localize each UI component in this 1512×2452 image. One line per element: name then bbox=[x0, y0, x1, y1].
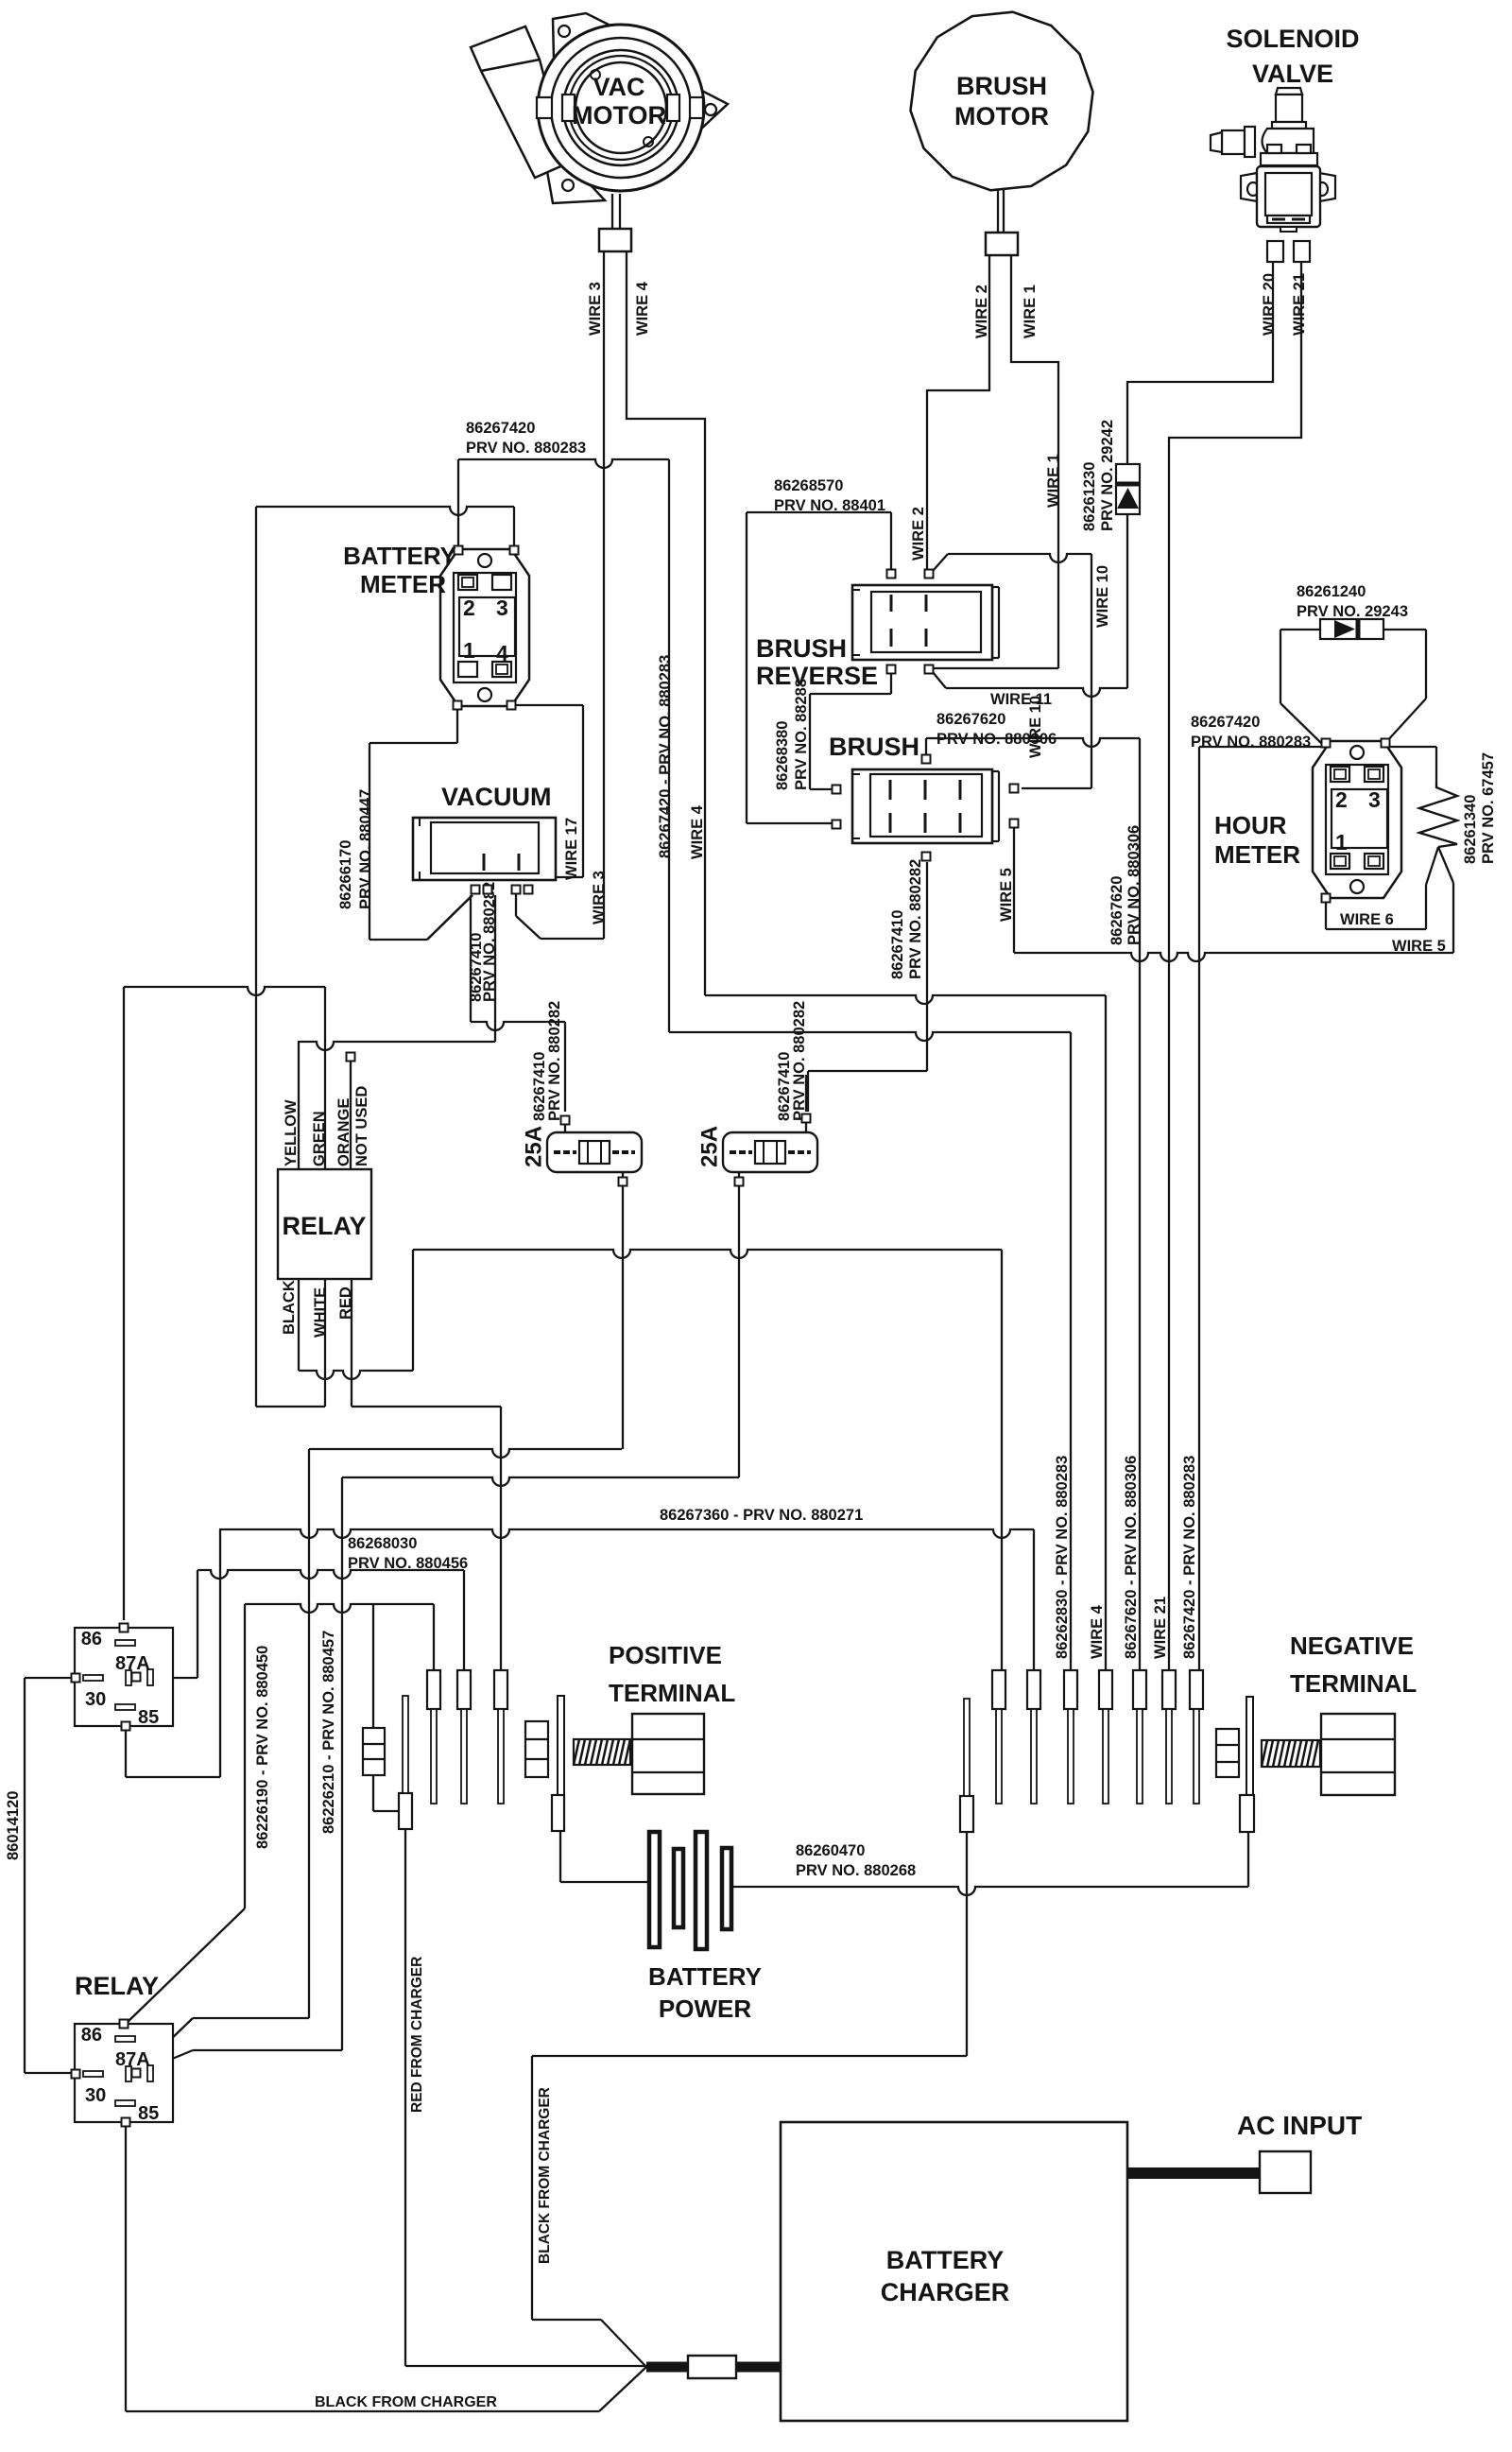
svg-text:SOLENOID: SOLENOID bbox=[1226, 25, 1359, 53]
svg-text:METER: METER bbox=[360, 570, 446, 598]
wire relay1 87A to bus y1661 bbox=[173, 1677, 198, 1679]
splice (charger leads) bbox=[688, 2356, 736, 2378]
thick wire charger DC leads bbox=[646, 2362, 688, 2373]
svg-text:85: 85 bbox=[138, 2103, 159, 2124]
svg-text:GREEN: GREEN bbox=[311, 1111, 328, 1166]
svg-text:85: 85 bbox=[138, 1707, 159, 1728]
svg-text:PRV NO. 29243: PRV NO. 29243 bbox=[1297, 603, 1408, 620]
hour meter pin stub top-left bbox=[1322, 739, 1331, 748]
wire battery meter pin3 loop to WHITE bbox=[256, 507, 514, 515]
svg-text:87A: 87A bbox=[115, 1653, 150, 1674]
connector bar b2 bbox=[1027, 1670, 1040, 1709]
svg-text:86267420: 86267420 bbox=[466, 420, 535, 437]
wire splice to red charger bar bbox=[372, 1775, 374, 1811]
svg-text:PRV NO. 88288: PRV NO. 88288 bbox=[793, 679, 810, 790]
resistor R1 86261340 PRV NO. 67457 bbox=[1419, 783, 1457, 847]
svg-text:WIRE 5: WIRE 5 bbox=[1392, 938, 1446, 955]
wire hour meter top-left pin to 86267420 riser bbox=[1199, 746, 1321, 748]
svg-text:86267620 - PRV NO. 880306: 86267620 - PRV NO. 880306 bbox=[1123, 1456, 1140, 1659]
svg-text:25A: 25A bbox=[697, 1126, 723, 1167]
brush switch terminal right-upper bbox=[1010, 785, 1019, 793]
wire hour meter top-right pin to resistor bbox=[1387, 746, 1436, 748]
svg-text:86267620: 86267620 bbox=[1108, 876, 1125, 945]
svg-text:NEGATIVE: NEGATIVE bbox=[1290, 1632, 1414, 1660]
terminal block POSITIVE TERMINAL bbox=[632, 1714, 704, 1794]
svg-text:86267620: 86267620 bbox=[936, 711, 1005, 728]
wire WIRE 10 from brush reverse terminal to brush switch bbox=[933, 554, 948, 571]
wire brush switch right top terminal lead bbox=[1021, 787, 1022, 789]
svg-text:BLACK: BLACK bbox=[281, 1280, 298, 1335]
vacuum switch terminal 3 bbox=[512, 886, 521, 894]
wire battery meter pin1 to vacuum switch (86266170 - PRV NO. 880447) bbox=[456, 709, 458, 743]
svg-text:WIRE 10: WIRE 10 bbox=[1094, 565, 1111, 628]
solenoid valve terminal 21 bbox=[1294, 241, 1310, 262]
brush motor connector bbox=[986, 233, 1018, 255]
brush switch BRUSH bbox=[852, 769, 992, 843]
vacuum switch VACUUM bbox=[413, 818, 556, 880]
connector bar RED FROM CHARGER mate bbox=[399, 1793, 412, 1829]
circuit breaker CB1 bottom terminal bbox=[619, 1178, 627, 1186]
threaded stud (negative) bbox=[1262, 1740, 1320, 1767]
svg-text:25A: 25A bbox=[522, 1126, 547, 1167]
wire BRUSH MOTOR pigtail bbox=[997, 189, 999, 233]
wire battery power to negative plate (86260470 - PRV NO. 880268) bbox=[731, 1887, 1248, 1895]
brush reverse terminal bottom-left bbox=[887, 665, 896, 674]
connector bar b4 (WIRE 4) bbox=[1099, 1670, 1112, 1709]
wire bus y1563 breaker2 to relay2 87A bbox=[342, 1477, 739, 1486]
circuit breaker CB1 25A bbox=[547, 1132, 642, 1172]
svg-text:WIRE 4: WIRE 4 bbox=[1089, 1604, 1106, 1659]
connector bar b3 bbox=[1064, 1670, 1077, 1709]
wire BLACK from relay bbox=[298, 1279, 300, 1371]
battery symbol BATTERY POWER bbox=[649, 1832, 660, 1947]
wire 86268570 PRV NO. 88401 loop (brush reverse to brush) bbox=[890, 512, 892, 569]
svg-text:PRV NO. 29242: PRV NO. 29242 bbox=[1099, 420, 1116, 531]
wire WIRE 1 from brush motor bbox=[1011, 255, 1058, 668]
svg-text:3: 3 bbox=[1368, 787, 1381, 812]
brush switch terminal bottom bbox=[922, 853, 931, 861]
svg-text:PRV NO. 88401: PRV NO. 88401 bbox=[774, 497, 885, 514]
brush switch terminal left-upper bbox=[833, 786, 841, 794]
circuit breaker CB2 top terminal bbox=[802, 1114, 811, 1123]
svg-text:86: 86 bbox=[81, 1629, 102, 1649]
wire breaker2 top lead bbox=[805, 1075, 807, 1112]
svg-text:WIRE 21: WIRE 21 bbox=[1291, 273, 1308, 336]
svg-text:86267360 - PRV NO. 880271: 86267360 - PRV NO. 880271 bbox=[660, 1507, 863, 1524]
svg-text:86262830 - PRV NO. 880283: 86262830 - PRV NO. 880283 bbox=[1054, 1456, 1071, 1659]
wire 86268380 PRV NO. 88288 (brush reverse to brush) bbox=[890, 672, 892, 694]
hour meter connector HOUR METER bbox=[1313, 741, 1401, 898]
svg-text:86261240: 86261240 bbox=[1297, 583, 1366, 600]
vac motor connector bbox=[599, 229, 631, 251]
brush reverse terminal top-right bbox=[925, 570, 934, 578]
svg-text:PRV NO. 880283: PRV NO. 880283 bbox=[466, 440, 586, 457]
splice 86226190/charger bbox=[363, 1728, 385, 1775]
relay box RELAY bbox=[278, 1169, 371, 1279]
threaded stud (positive) bbox=[574, 1739, 630, 1765]
svg-text:30: 30 bbox=[85, 2085, 106, 2106]
svg-text:TERMINAL: TERMINAL bbox=[1290, 1669, 1417, 1698]
svg-text:86226210 - PRV NO. 880457: 86226210 - PRV NO. 880457 bbox=[320, 1631, 337, 1834]
wire CB1 stub links bbox=[564, 1124, 566, 1132]
svg-text:WIRE 4: WIRE 4 bbox=[689, 804, 706, 859]
svg-text:NOT USED: NOT USED bbox=[353, 1086, 370, 1166]
svg-text:HOUR: HOUR bbox=[1214, 811, 1287, 839]
stub NOT USED terminal bbox=[347, 1053, 355, 1062]
wire bus y1697 (86226190) to relay2 86 bbox=[245, 1604, 434, 1613]
wire WHITE from relay bbox=[324, 1279, 326, 1407]
svg-text:86267420: 86267420 bbox=[1191, 714, 1260, 731]
svg-text:MOTOR: MOTOR bbox=[572, 101, 666, 130]
battery charger box BATTERY CHARGER bbox=[781, 2122, 1127, 2421]
brush switch terminal left-lower bbox=[833, 820, 841, 829]
wire YELLOW into relay bbox=[298, 1042, 300, 1169]
svg-text:WIRE 21: WIRE 21 bbox=[1152, 1597, 1169, 1659]
svg-text:VACUUM: VACUUM bbox=[441, 783, 552, 811]
svg-text:30: 30 bbox=[85, 1689, 106, 1710]
svg-text:87A: 87A bbox=[115, 2049, 150, 2070]
svg-text:BLACK FROM CHARGER: BLACK FROM CHARGER bbox=[315, 2394, 497, 2410]
wire black-from-charger vertical bbox=[531, 2056, 533, 2320]
svg-text:86267420 - PRV NO. 880283: 86267420 - PRV NO. 880283 bbox=[1181, 1456, 1198, 1659]
svg-text:MOTOR: MOTOR bbox=[954, 102, 1049, 130]
vacuum switch terminal 2 bbox=[484, 886, 492, 894]
svg-text:ORANGE: ORANGE bbox=[335, 1098, 352, 1166]
bus plate (negative) bbox=[1246, 1697, 1253, 1795]
circuit breaker CB1 top terminal bbox=[561, 1116, 570, 1125]
svg-text:86261340: 86261340 bbox=[1462, 795, 1479, 864]
wire WIRE 4 from vac motor connector bbox=[627, 250, 705, 995]
svg-text:PRV NO. 880447: PRV NO. 880447 bbox=[357, 789, 374, 909]
wire diode1 to WIRE 11 bbox=[1126, 514, 1128, 688]
svg-text:86261230: 86261230 bbox=[1081, 462, 1098, 531]
svg-text:WIRE 5: WIRE 5 bbox=[998, 868, 1015, 922]
wire breaker1 bottom lead bbox=[622, 1185, 624, 1449]
wire WIRE 2 from brush motor to brush reverse bbox=[927, 255, 989, 569]
svg-text:4: 4 bbox=[496, 641, 508, 665]
svg-text:REVERSE: REVERSE bbox=[756, 662, 878, 690]
brush reverse terminal top-left bbox=[887, 570, 896, 578]
svg-text:WHITE: WHITE bbox=[312, 1287, 329, 1338]
wire splice drop from bus y1697 bbox=[372, 1604, 374, 1728]
svg-text:METER: METER bbox=[1214, 840, 1300, 869]
svg-text:2: 2 bbox=[1335, 787, 1348, 812]
wire charger to negative mate connector bbox=[532, 2055, 967, 2057]
wire battery bus y1322 bbox=[413, 1250, 1002, 1258]
wire WIRE 5 from brush switch to resistor bbox=[1013, 827, 1015, 953]
svg-text:RELAY: RELAY bbox=[282, 1212, 366, 1240]
svg-text:PRV NO. 880283: PRV NO. 880283 bbox=[1191, 734, 1311, 751]
wire WIRE 3 from vac motor connector down to vacuum switch (86267420) bbox=[603, 250, 605, 939]
circuit breaker CB2 bottom terminal bbox=[735, 1178, 744, 1186]
svg-text:AC INPUT: AC INPUT bbox=[1237, 2111, 1362, 2140]
relay K1 (86/87A/30/85) bbox=[72, 1624, 174, 1731]
wire breaker2 bottom lead bbox=[738, 1185, 740, 1477]
wire bus 86268030 / 86267360 bbox=[219, 1529, 1034, 1538]
svg-text:WIRE 3: WIRE 3 bbox=[587, 282, 604, 336]
wire bus y1533 breaker1 to relay2 87A bbox=[309, 1449, 622, 1458]
brush motor BRUSH MOTOR bbox=[911, 12, 1093, 191]
wire relay2 85 black-from-charger run bbox=[125, 2122, 127, 2411]
svg-text:PRV NO. 880268: PRV NO. 880268 bbox=[796, 1862, 916, 1879]
svg-text:WIRE 3: WIRE 3 bbox=[591, 871, 608, 924]
wire WIRE 4 lower run to negative bar bbox=[705, 995, 1106, 1004]
hour meter pin stub bottom-left bbox=[1322, 894, 1331, 903]
svg-text:1: 1 bbox=[1335, 830, 1348, 855]
hour meter pin stub top-right bbox=[1382, 739, 1390, 748]
svg-text:WIRE 1: WIRE 1 bbox=[1045, 454, 1062, 508]
connector bar (86226190 circuit) bbox=[427, 1670, 440, 1709]
svg-text:PRV NO. 880306: PRV NO. 880306 bbox=[1125, 825, 1143, 945]
wire ORANGE stub bbox=[350, 1061, 352, 1169]
svg-text:PRV NO. 67457: PRV NO. 67457 bbox=[1480, 752, 1497, 864]
wire WIRE 11 brush reverse to diode1 bbox=[933, 672, 946, 688]
wire battery meter pin2 riser (86267420 - PRV NO. 880283) bbox=[457, 459, 459, 546]
svg-text:WIRE 1: WIRE 1 bbox=[1022, 285, 1039, 338]
svg-text:BRUSH: BRUSH bbox=[756, 634, 847, 663]
svg-text:1: 1 bbox=[463, 638, 475, 663]
bus plate (positive) bbox=[558, 1696, 564, 1795]
svg-text:86267410: 86267410 bbox=[889, 910, 906, 979]
relay K2 (86/87A/30/85) bbox=[72, 2020, 174, 2127]
battery meter pin stub top-left bbox=[455, 546, 463, 555]
svg-text:BATTERY: BATTERY bbox=[886, 2246, 1005, 2274]
svg-text:BRUSH: BRUSH bbox=[829, 733, 919, 761]
wire diode2 loop right bbox=[1383, 629, 1426, 630]
battery meter pin stub top-right bbox=[510, 546, 519, 555]
nut (negative) bbox=[1216, 1729, 1239, 1777]
wire battery meter pin4 WIRE 17 to vacuum switch bbox=[516, 704, 583, 706]
svg-text:WIRE 17: WIRE 17 bbox=[563, 818, 580, 880]
brush switch terminal top bbox=[922, 755, 931, 764]
svg-text:POSITIVE: POSITIVE bbox=[609, 1641, 722, 1669]
wire vacuum to relay YELLOW feed bbox=[494, 895, 496, 1042]
battery meter pin stub bottom-right bbox=[507, 701, 516, 710]
wire 86014120 relay1-30 to relay2-30 bbox=[25, 1677, 75, 1679]
svg-text:PRV NO. 880282: PRV NO. 880282 bbox=[907, 859, 924, 979]
wire vacuum terminal A diagonal bbox=[427, 895, 472, 940]
battery meter pin stub bottom-left bbox=[454, 701, 462, 710]
wire GREEN from relay to lower relay bbox=[324, 987, 326, 1169]
connector bar (relay1 87A circuit) bbox=[457, 1670, 471, 1709]
wire CB2 stub links bbox=[805, 1122, 807, 1132]
wire 86267410 PRV NO. 880282 vacuum to breaker1 bbox=[470, 895, 472, 1022]
svg-text:86260470: 86260470 bbox=[796, 1842, 865, 1859]
brush reverse terminal bottom-right bbox=[925, 665, 934, 674]
wire 86267410 PRV NO. 880282 brush bottom to breaker2 bbox=[926, 862, 928, 1071]
svg-text:86266170: 86266170 bbox=[337, 840, 354, 909]
svg-text:86268570: 86268570 bbox=[774, 477, 843, 494]
svg-text:YELLOW: YELLOW bbox=[283, 1099, 300, 1166]
wire WIRE 1 into brush reverse lower terminal bbox=[934, 667, 1058, 669]
svg-text:WIRE 11: WIRE 11 bbox=[990, 691, 1052, 708]
terminal block NEGATIVE TERMINAL bbox=[1321, 1714, 1395, 1795]
svg-text:WIRE 4: WIRE 4 bbox=[634, 281, 651, 336]
nut (positive) bbox=[525, 1721, 548, 1777]
thick wire AC input bbox=[1127, 2167, 1260, 2179]
svg-text:CHARGER: CHARGER bbox=[881, 2278, 1010, 2306]
svg-text:BRUSH: BRUSH bbox=[956, 72, 1047, 100]
diode D2 86261240 PRV NO. 29243 bbox=[1320, 619, 1383, 639]
svg-text:BATTERY: BATTERY bbox=[343, 542, 456, 570]
wire VAC MOTOR pigtail bbox=[611, 194, 613, 229]
circuit breaker CB2 25A bbox=[723, 1132, 817, 1172]
wire relay1 85 to bus (via riser x233) bbox=[125, 1725, 127, 1777]
wire red-from-charger down run bbox=[404, 1829, 406, 2366]
wire vacuum switch to WIRE 3 bbox=[515, 894, 517, 916]
wire 86267620 PRV NO. 880306 from brush switch bbox=[925, 738, 927, 755]
svg-text:WIRE 2: WIRE 2 bbox=[910, 507, 927, 561]
svg-text:86226190 - PRV NO. 880450: 86226190 - PRV NO. 880450 bbox=[254, 1646, 271, 1849]
svg-text:TERMINAL: TERMINAL bbox=[609, 1679, 735, 1707]
connector bar b1 bbox=[992, 1670, 1005, 1709]
connector bar b7 (86267420) bbox=[1190, 1670, 1203, 1709]
brush reverse switch BRUSH REVERSE bbox=[852, 585, 992, 660]
svg-text:BLACK FROM CHARGER: BLACK FROM CHARGER bbox=[537, 2087, 553, 2264]
connector AC INPUT bbox=[1260, 2151, 1311, 2193]
svg-text:86267420 - PRV NO. 880283: 86267420 - PRV NO. 880283 bbox=[657, 655, 674, 858]
wire positive plate to battery power bbox=[559, 1831, 561, 1882]
connector bar b6 (WIRE 21) bbox=[1162, 1670, 1176, 1709]
svg-text:86268380: 86268380 bbox=[774, 721, 791, 790]
wire WIRE 21 from solenoid valve bbox=[1169, 263, 1301, 1670]
svg-text:VALVE: VALVE bbox=[1252, 60, 1333, 88]
wire WIRE 20 from solenoid valve to diode bbox=[1127, 263, 1273, 464]
svg-text:VAC: VAC bbox=[593, 73, 644, 101]
vac motor VAC MOTOR bbox=[471, 13, 728, 203]
wire RED from relay bbox=[351, 1279, 352, 1407]
wire resistor to WIRE 5 bbox=[1438, 847, 1453, 883]
svg-text:86: 86 bbox=[81, 2025, 102, 2046]
solenoid valve terminal 20 bbox=[1267, 241, 1283, 262]
svg-text:RELAY: RELAY bbox=[75, 1972, 159, 2000]
svg-text:WIRE 6: WIRE 6 bbox=[1340, 911, 1394, 928]
svg-text:RED FROM CHARGER: RED FROM CHARGER bbox=[409, 1957, 425, 2113]
connector bar b5 (86267620) bbox=[1133, 1670, 1146, 1709]
svg-text:WIRE 20: WIRE 20 bbox=[1261, 273, 1278, 336]
svg-text:86014120: 86014120 bbox=[5, 1791, 22, 1860]
svg-text:BATTERY: BATTERY bbox=[648, 1962, 762, 1991]
svg-text:PRV NO. 880306: PRV NO. 880306 bbox=[936, 731, 1057, 748]
battery meter connector BATTERY METER bbox=[440, 549, 529, 706]
diode D1 86261230 PRV NO. 29242 bbox=[1116, 464, 1140, 514]
svg-text:PRV NO. 880282: PRV NO. 880282 bbox=[546, 1001, 563, 1121]
svg-text:WIRE 2: WIRE 2 bbox=[973, 285, 990, 338]
connector bar BLACK FROM CHARGER mate bbox=[960, 1796, 973, 1832]
svg-text:POWER: POWER bbox=[659, 1994, 751, 2023]
vacuum switch terminal 4 bbox=[524, 886, 533, 894]
brush switch terminal right-lower bbox=[1010, 820, 1019, 828]
wire diode2 loop left bbox=[1280, 703, 1323, 745]
solenoid valve SOLENOID VALVE bbox=[1211, 88, 1335, 232]
svg-text:RED: RED bbox=[337, 1286, 354, 1320]
svg-text:2: 2 bbox=[463, 596, 475, 620]
svg-text:3: 3 bbox=[496, 596, 508, 620]
svg-text:86268030: 86268030 bbox=[348, 1535, 417, 1552]
wire WIRE 6 loop bbox=[1325, 903, 1327, 929]
vacuum switch terminal 1 bbox=[472, 886, 480, 894]
connector bar (RED circuit) bbox=[494, 1670, 507, 1709]
